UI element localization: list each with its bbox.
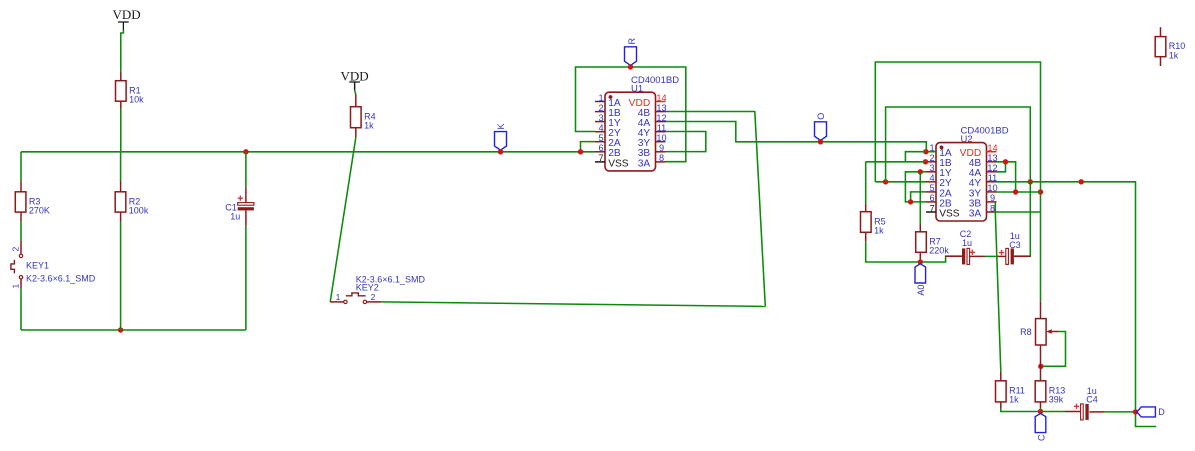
svg-text:C4: C4 (1086, 395, 1098, 405)
svg-text:12: 12 (656, 113, 666, 123)
svg-text:1k: 1k (874, 226, 884, 236)
svg-text:VSS: VSS (608, 158, 629, 169)
svg-text:14: 14 (656, 93, 666, 103)
svg-text:220k: 220k (929, 246, 949, 256)
svg-text:U2: U2 (961, 134, 973, 145)
svg-text:1k: 1k (1169, 51, 1179, 61)
svg-text:9: 9 (659, 143, 664, 153)
svg-text:K: K (496, 123, 506, 129)
svg-text:14: 14 (987, 143, 997, 153)
svg-text:39k: 39k (1049, 395, 1064, 405)
svg-text:VDD: VDD (113, 7, 141, 22)
svg-text:8: 8 (990, 203, 995, 213)
svg-text:9: 9 (990, 193, 995, 203)
svg-text:4: 4 (598, 123, 603, 133)
svg-text:10: 10 (656, 133, 666, 143)
svg-text:4: 4 (929, 173, 934, 183)
svg-text:1: 1 (10, 284, 20, 289)
svg-text:KEY2: KEY2 (356, 282, 379, 292)
svg-text:6: 6 (929, 193, 934, 203)
svg-text:1u: 1u (962, 238, 972, 248)
svg-text:270K: 270K (29, 206, 50, 216)
svg-text:11: 11 (988, 173, 998, 183)
svg-text:3: 3 (929, 163, 934, 173)
svg-text:11: 11 (657, 123, 667, 133)
svg-text:2: 2 (10, 247, 20, 252)
svg-text:O: O (816, 113, 826, 120)
svg-text:5: 5 (598, 133, 603, 143)
svg-text:D: D (1158, 407, 1165, 417)
svg-text:VSS: VSS (939, 208, 960, 219)
svg-text:3A: 3A (638, 158, 651, 169)
svg-text:2: 2 (371, 292, 376, 302)
svg-text:1: 1 (598, 93, 603, 103)
svg-text:3A: 3A (969, 208, 982, 219)
svg-text:8: 8 (659, 153, 664, 163)
svg-text:7: 7 (598, 153, 603, 163)
svg-text:C: C (1037, 434, 1047, 441)
svg-text:1k: 1k (1009, 395, 1019, 405)
svg-text:R: R (627, 38, 637, 45)
svg-text:R8: R8 (1020, 327, 1032, 337)
svg-text:1: 1 (336, 292, 341, 302)
svg-text:2: 2 (929, 153, 934, 163)
svg-text:13: 13 (656, 103, 666, 113)
svg-text:10k: 10k (129, 95, 144, 105)
svg-text:1k: 1k (364, 121, 374, 131)
svg-text:7: 7 (929, 203, 934, 213)
svg-text:5: 5 (929, 183, 934, 193)
svg-text:1u: 1u (230, 212, 240, 222)
svg-text:K2-3.6×6.1_SMD: K2-3.6×6.1_SMD (26, 273, 96, 283)
svg-text:3: 3 (598, 113, 603, 123)
svg-text:C3: C3 (1009, 240, 1021, 250)
svg-text:100k: 100k (129, 206, 149, 216)
svg-text:U1: U1 (631, 84, 643, 95)
svg-text:KEY1: KEY1 (26, 261, 49, 271)
svg-text:2: 2 (598, 103, 603, 113)
svg-text:6: 6 (598, 143, 603, 153)
svg-text:A0: A0 (916, 285, 926, 296)
